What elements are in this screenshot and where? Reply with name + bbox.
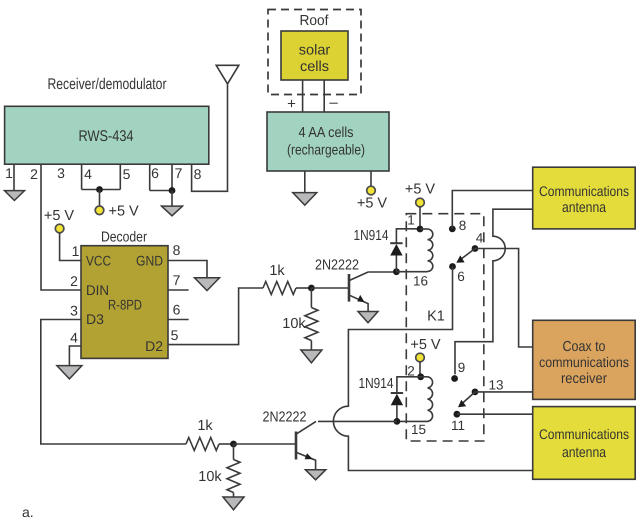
wire joining U2 pins 6 and 7: [150, 190, 172, 192]
receiver/demodulator U2 (RWS-434): [5, 76, 209, 164]
svg-text:7: 7: [173, 272, 181, 288]
contact pin 11 K1: [454, 411, 461, 418]
ground at R2: [301, 350, 322, 363]
svg-text:+5 V: +5 V: [357, 196, 388, 212]
resistor R4 10k: [227, 460, 240, 493]
svg-text:4: 4: [476, 231, 484, 246]
contact pin 8 K1: [449, 226, 456, 233]
svg-text:solar: solar: [299, 43, 331, 59]
svg-text:Roof: Roof: [300, 13, 330, 29]
solar cells panel: [281, 31, 348, 80]
communications antenna A box: [533, 167, 636, 229]
node +5V at U2 pins 4/5: [95, 206, 104, 215]
svg-text:RWS-434: RWS-434: [79, 128, 134, 145]
junction at K1 coil pin 1: [417, 226, 424, 233]
wire U2 pin 8 to antenna: [192, 85, 228, 192]
svg-text:11: 11: [451, 418, 465, 433]
wire junction to Q2 base: [234, 443, 296, 445]
wire battery to +5V node: [370, 171, 372, 186]
svg-text:4 AA cells: 4 AA cells: [299, 125, 354, 141]
switch arm K1 pin 13: [461, 392, 475, 405]
communications antenna B box: [533, 407, 636, 480]
wire R2 to ground: [310, 341, 312, 351]
wire junction to R4: [233, 444, 235, 460]
switch arm K1 pin 4: [460, 249, 476, 261]
wire pin 11 to antenna B: [457, 413, 533, 415]
battery pack 4 AA cells: [267, 112, 389, 171]
wire lower coil top connector: [421, 376, 428, 378]
svg-text:1k: 1k: [269, 263, 285, 279]
svg-text:D3: D3: [86, 311, 104, 327]
svg-text:2: 2: [30, 166, 38, 182]
wire U2 pin 7: [171, 164, 173, 190]
ground at Q1 emitter: [358, 312, 378, 323]
svg-text:Communications: Communications: [539, 426, 629, 442]
svg-text:D2: D2: [145, 338, 163, 354]
node +5V at K1 coil pin 2: [416, 353, 425, 362]
svg-text:antenna: antenna: [562, 445, 607, 461]
node +5V at decoder VCC: [55, 224, 64, 233]
wire U2 pin 5: [119, 164, 121, 189]
contact pin 4 K1: [472, 245, 479, 252]
svg-text:Coax to: Coax to: [563, 339, 606, 355]
svg-text:13: 13: [488, 378, 503, 393]
svg-text:10k: 10k: [198, 469, 222, 485]
ground at U3 pin 8: [195, 278, 220, 291]
svg-text:8: 8: [194, 166, 202, 182]
svg-text:15: 15: [411, 422, 426, 437]
wire U3 pin 3 (D3) to R3: [41, 320, 186, 445]
diode D2 1N914: [359, 376, 421, 421]
svg-text:+5 V: +5 V: [109, 204, 140, 220]
wire lower coil bottom connector: [397, 420, 428, 422]
wire battery to ground: [304, 171, 306, 193]
svg-text:3: 3: [57, 165, 65, 181]
svg-text:2N2222: 2N2222: [263, 410, 307, 426]
svg-text:10k: 10k: [282, 316, 306, 332]
svg-text:GND: GND: [136, 253, 163, 269]
wire coil top connector: [420, 228, 428, 230]
junction at K1 coil pin 16: [393, 268, 400, 275]
wire R1 to junction: [296, 287, 311, 289]
svg-text:cells: cells: [300, 59, 329, 75]
stub U3 pin 7: [168, 289, 189, 291]
svg-text:1k: 1k: [197, 418, 213, 434]
wire junction to +5V node: [99, 190, 101, 206]
svg-text:8: 8: [459, 218, 467, 233]
wire +5V to decoder pin 1: [60, 233, 81, 261]
svg-text:communications: communications: [539, 354, 629, 370]
wire solar cells - to battery: [323, 80, 325, 112]
svg-text:DIN: DIN: [86, 282, 109, 298]
wire solar cells + to battery: [302, 80, 304, 112]
wire joining U2 pins 4 and 5: [82, 189, 121, 191]
decoder U3 (R-8PD): [81, 230, 168, 359]
svg-text:+: +: [287, 96, 296, 113]
wire R3 to junction: [219, 443, 234, 445]
roof dashed enclosure: [268, 10, 361, 95]
svg-text:+5 V: +5 V: [405, 182, 436, 198]
junction at Q2 base network: [230, 441, 237, 448]
svg-text:4: 4: [84, 166, 92, 182]
wire pin 13 to coax: [475, 391, 533, 393]
wire Q2 collector to junction: [318, 420, 397, 422]
ground at Q2 emitter: [305, 470, 325, 480]
wire +5V to lower coil top: [419, 362, 421, 377]
node +5V at K1 coil pin 1: [416, 198, 425, 207]
resistor R1 1k: [263, 282, 296, 295]
svg-text:a.: a.: [22, 504, 34, 520]
svg-text:16: 16: [413, 274, 428, 289]
svg-text:1: 1: [407, 213, 415, 228]
ground at U3 pin 4: [57, 366, 82, 379]
contact pin 6 K1: [449, 263, 456, 270]
wire U2 pin 1 to ground: [13, 164, 15, 190]
relay coil K1 lower: [428, 377, 433, 422]
wire U2 pin 4: [81, 164, 83, 189]
svg-text:2: 2: [70, 273, 78, 289]
svg-text:1N914: 1N914: [359, 376, 394, 392]
resistor R2 10k: [305, 308, 318, 341]
relay K1 dashed enclosure: [406, 214, 484, 441]
svg-text:8: 8: [173, 242, 181, 258]
relay coil K1 upper: [428, 229, 433, 271]
wire U2 pin 2 to decoder DIN: [41, 164, 81, 290]
svg-text:Communications: Communications: [539, 183, 629, 199]
stub U3 pin 6: [168, 319, 189, 321]
resistor R3 1k: [186, 438, 219, 451]
ground at battery: [293, 193, 317, 206]
svg-text:6: 6: [173, 302, 181, 318]
svg-text:antenna: antenna: [562, 200, 607, 216]
wire R4 to ground: [233, 493, 235, 498]
svg-text:3: 3: [70, 303, 78, 319]
junction at U2 pins 4/5: [96, 186, 103, 193]
svg-text:6: 6: [457, 269, 465, 284]
svg-text:7: 7: [175, 165, 183, 181]
diode D1 1N914: [354, 228, 421, 272]
svg-text:1N914: 1N914: [354, 228, 389, 244]
wire U3 pin 5 (D2) to R1: [168, 288, 263, 345]
svg-text:5: 5: [123, 166, 131, 182]
svg-text:receiver: receiver: [561, 371, 607, 387]
junction at K1 coil pin 2: [417, 373, 424, 380]
wire junction to R2: [310, 288, 312, 308]
antenna ANT1: [216, 65, 239, 84]
wire U3 pin 8 (GND) to ground: [168, 261, 207, 278]
svg-text:4: 4: [70, 330, 78, 346]
contact pin 9 K1: [451, 375, 458, 382]
svg-text:Decoder: Decoder: [101, 230, 147, 246]
wire coil bottom connector: [396, 271, 427, 273]
svg-text:VCC: VCC: [86, 253, 111, 269]
coax to communications receiver box: [533, 320, 636, 399]
svg-text:Receiver/demodulator: Receiver/demodulator: [48, 76, 167, 93]
junction at Q1 base network: [308, 285, 315, 292]
svg-text:(rechargeable): (rechargeable): [287, 143, 365, 159]
transistor Q2 2N2222: [263, 410, 317, 470]
svg-text:1: 1: [5, 165, 13, 181]
junction at K1 coil pin 15: [394, 418, 401, 425]
svg-text:+5 V: +5 V: [44, 208, 75, 224]
ground at R4: [223, 497, 244, 510]
wire +5V to coil top: [419, 207, 421, 229]
junction at U2 pin 7: [169, 187, 176, 194]
ground at U2 pin 1: [5, 191, 25, 201]
svg-text:2N2222: 2N2222: [315, 258, 359, 274]
svg-text:–: –: [329, 94, 338, 111]
svg-text:9: 9: [458, 360, 466, 375]
svg-text:+5 V: +5 V: [410, 337, 441, 353]
transistor Q1 2N2222: [315, 258, 368, 312]
contact pin 13 K1: [472, 389, 479, 396]
svg-text:K1: K1: [427, 309, 445, 325]
wire pin 4 to coax: [475, 249, 533, 348]
wire pin 8 to antenna A: [452, 191, 532, 229]
svg-text:1: 1: [72, 243, 80, 259]
svg-text:6: 6: [151, 165, 159, 181]
svg-text:R-8PD: R-8PD: [108, 297, 142, 313]
svg-text:5: 5: [171, 327, 179, 343]
wire antenna A to pin 9 (with hop): [455, 209, 533, 374]
ground at U2 pins 6/7: [162, 206, 183, 216]
wire junction to Q1 base: [311, 287, 348, 289]
node +5V at battery: [367, 186, 376, 195]
wire junction to ground: [171, 191, 173, 207]
wire Q1 collector to junction: [368, 271, 396, 273]
wire pin 6 to antenna B (with hop): [333, 267, 533, 471]
wire U3 pin 4 to ground: [69, 346, 81, 366]
wire U2 pin 6: [149, 164, 151, 190]
